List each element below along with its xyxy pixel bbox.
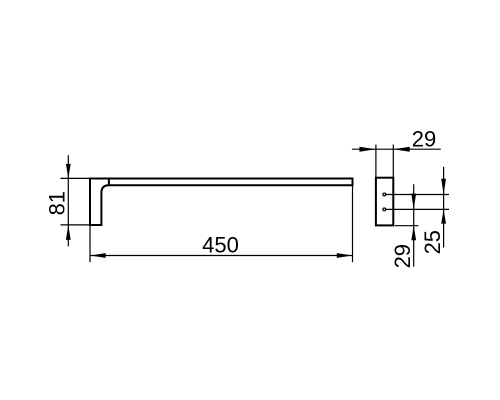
svg-text:450: 450: [202, 233, 239, 258]
svg-text:29: 29: [390, 244, 415, 268]
svg-text:25: 25: [420, 230, 445, 254]
svg-text:29: 29: [412, 127, 436, 152]
svg-text:81: 81: [44, 191, 69, 215]
